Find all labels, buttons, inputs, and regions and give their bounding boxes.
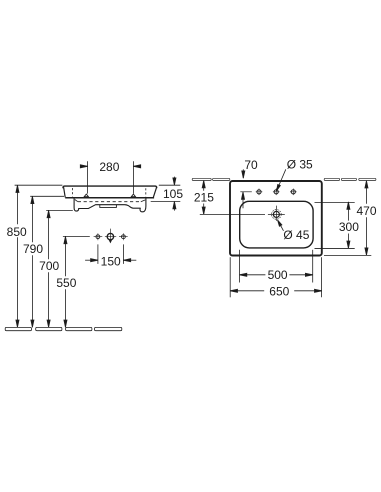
- dimension 850 line: [16, 185, 18, 327]
- dimension 650 ext line left: [229, 257, 231, 297]
- dimension 850 arrow bottom: [16, 320, 19, 327]
- dimension 700 extension line: [46, 209, 73, 211]
- dimension 650 line: [230, 290, 322, 292]
- dimension 500 ext line right: [312, 250, 314, 283]
- svg-text:Ø 35: Ø 35: [287, 157, 313, 171]
- svg-text:790: 790: [23, 242, 43, 256]
- dimension 500 line: [240, 274, 313, 276]
- dimension 790 arrow top: [31, 196, 34, 203]
- fixing hole right crosshair: [119, 233, 128, 240]
- dimension 300 arrow top: [347, 202, 350, 209]
- dimension 790 extension line: [30, 195, 64, 197]
- svg-text:150: 150: [101, 254, 121, 268]
- dimension 470 line: [365, 181, 367, 256]
- tap hole center: [273, 189, 280, 196]
- under-body drain recess: [100, 205, 117, 208]
- hidden bowl bottom (dashed): [78, 201, 141, 203]
- dimension 470 arrow top: [365, 181, 368, 188]
- dimension 650 ext line right: [321, 257, 323, 297]
- dimension 550 extension line: [63, 235, 90, 237]
- svg-text:550: 550: [56, 276, 76, 290]
- dimension 280 extension line left: [87, 161, 89, 193]
- drain centerline to left: [200, 213, 265, 215]
- floor hatch band: [5, 327, 122, 330]
- hidden bowl edge left (dashed): [72, 188, 74, 197]
- basin outer rect: [230, 181, 322, 256]
- basin under-body right outline: [140, 198, 146, 211]
- basin rim top edge: [63, 186, 157, 188]
- svg-text:300: 300: [339, 220, 359, 234]
- dimension 550 arrow top: [64, 236, 67, 243]
- wall hatch band: [192, 178, 376, 180]
- tap hole triangle left: [84, 194, 88, 197]
- dimension 280 arrow right: [133, 165, 140, 168]
- dimension 105 arrow bottom: [173, 201, 176, 210]
- basin under-body left outline: [74, 198, 140, 211]
- dimension 650 arrow left: [230, 289, 237, 292]
- dimension 500 arrow left: [240, 273, 247, 276]
- dimension 150 arrow left: [85, 259, 98, 262]
- dimension 150 arrow right: [123, 259, 136, 262]
- dimension 300 ext line bottom: [315, 247, 355, 249]
- svg-text:215: 215: [194, 191, 214, 205]
- fixing hole center circle: [107, 233, 113, 239]
- dimension 215 arrow top: [202, 181, 205, 188]
- svg-text:700: 700: [39, 259, 59, 273]
- drain hole outer dashed circle: [272, 210, 282, 220]
- dimension 105 extension line top: [159, 184, 181, 186]
- tap hole right: [290, 189, 297, 196]
- svg-text:280: 280: [99, 160, 119, 174]
- dimension 300 arrow bottom: [347, 241, 350, 248]
- dimension 700 arrow bottom: [47, 320, 50, 327]
- drain hole inner circle: [273, 211, 279, 217]
- dimension 790 line: [31, 196, 33, 327]
- svg-text:850: 850: [7, 225, 27, 239]
- basin rim right edge: [153, 188, 156, 198]
- fixing hole left circle: [96, 235, 100, 239]
- dimension 700 arrow top: [47, 210, 50, 217]
- tap hole centerline ext: [240, 191, 252, 193]
- bowl bottom end tick left: [75, 200, 78, 202]
- dimension Ø45 leader: [278, 220, 284, 231]
- dimension 150 extension line left: [97, 244, 99, 264]
- dimension 150 extension line right: [122, 244, 124, 264]
- dimension 105 extension line bottom: [151, 201, 181, 203]
- fixing hole center crosshair: [105, 229, 116, 240]
- hidden bowl edge right (dashed): [145, 188, 147, 196]
- tap hole triangle right: [131, 194, 135, 197]
- dimension 500 ext line left: [239, 250, 241, 283]
- dimension 70 arrow top: [242, 169, 245, 178]
- dimension 550 line: [64, 236, 66, 327]
- fixing hole left crosshair: [94, 233, 103, 240]
- svg-text:650: 650: [269, 285, 289, 299]
- dimension 300 line: [347, 202, 349, 248]
- dimension 280 arrow left: [80, 165, 87, 168]
- dimension 215 arrow bottom: [202, 207, 205, 214]
- dimension 70 arrow bottom: [241, 192, 244, 208]
- svg-text:Ø 45: Ø 45: [283, 228, 309, 242]
- dimension 700 line: [48, 210, 50, 327]
- dimension Ø35 leader: [277, 169, 286, 191]
- dimension 280 extension line right: [132, 161, 134, 193]
- basin rim left edge: [64, 187, 66, 197]
- dimension 470 ext line bottom: [324, 254, 371, 256]
- dimension 550 arrow bottom: [64, 320, 67, 327]
- dimension 850 extension line: [15, 184, 63, 186]
- fixing hole right circle: [122, 235, 126, 239]
- bowl bottom end tick right: [141, 200, 146, 202]
- svg-text:105: 105: [163, 187, 183, 201]
- svg-text:470: 470: [356, 204, 376, 218]
- dimension 470 arrow bottom: [365, 248, 368, 255]
- dimension 650 arrow right: [315, 289, 322, 292]
- dimension 790 arrow bottom: [31, 320, 34, 327]
- basin rim bottom edge: [65, 197, 154, 199]
- tap hole left: [256, 189, 263, 196]
- dimension 215 line: [203, 181, 205, 215]
- dimension 105 arrow top: [173, 177, 176, 186]
- drain crosshair: [268, 206, 285, 221]
- svg-text:500: 500: [268, 268, 288, 282]
- dimension 850 arrow top: [16, 185, 19, 192]
- dimension 300 ext line top: [315, 201, 355, 203]
- basin inner bowl rounded rect: [240, 201, 313, 248]
- fixing hole center arrow mark: [109, 240, 112, 243]
- svg-text:70: 70: [244, 158, 258, 172]
- dimension 500 arrow right: [305, 273, 312, 276]
